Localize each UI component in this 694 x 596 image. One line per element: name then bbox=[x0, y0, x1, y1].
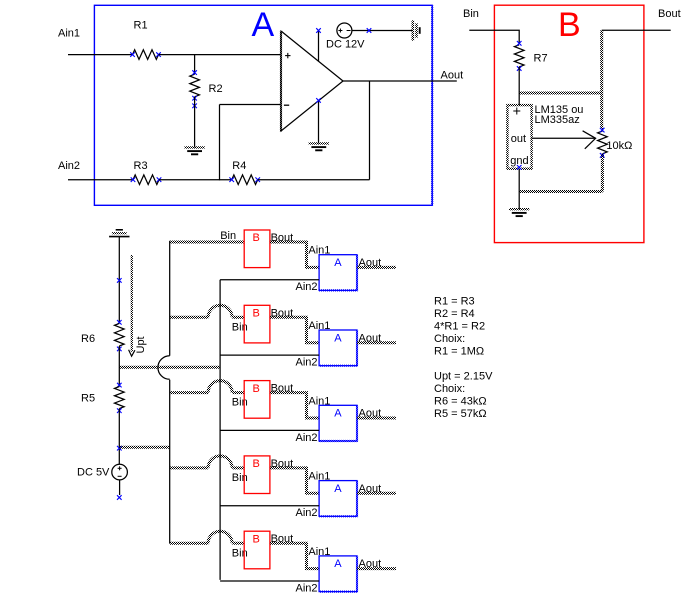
svg-text:Ain2: Ain2 bbox=[58, 160, 80, 172]
svg-text:R3: R3 bbox=[134, 160, 148, 172]
block A instance row4 bbox=[319, 481, 357, 517]
svg-text:Bin: Bin bbox=[232, 547, 248, 559]
block A instance row2 bbox=[319, 330, 357, 366]
Upt arrow head bbox=[129, 350, 135, 356]
pin x pot top bbox=[600, 128, 605, 133]
potentiometer P1 10k bbox=[598, 131, 608, 154]
svg-text:Choix:: Choix: bbox=[434, 383, 465, 395]
bus1 hop over divider wire bbox=[158, 356, 170, 380]
svg-text:R7: R7 bbox=[534, 53, 548, 65]
wire below DC 5V bbox=[119, 480, 121, 495]
wire R2 to ground bbox=[194, 97, 196, 148]
svg-text:out: out bbox=[511, 133, 526, 145]
resistor R4 bbox=[232, 175, 258, 185]
wire Bin row5 left (gray) bbox=[170, 542, 209, 545]
block B instance row1 bbox=[244, 230, 270, 268]
wire Ain2 row1 bbox=[220, 279, 319, 281]
wire Bin row5 hop over bus2 bbox=[208, 531, 232, 543]
wire R1 to op-amp noninverting input bbox=[159, 54, 282, 56]
resistor R7 bbox=[514, 45, 524, 67]
wire Ain1 input bbox=[68, 54, 133, 56]
sensor U2 LM135 body bbox=[507, 105, 531, 169]
wire Bout to Ain1 row3 (gray) bbox=[270, 393, 319, 418]
block A boundary box bbox=[94, 5, 432, 205]
pin x R3 left bbox=[131, 177, 136, 182]
pin x R4 right bbox=[255, 177, 260, 182]
pot wiper arrow head bbox=[583, 131, 596, 149]
resistor R2 bbox=[190, 74, 200, 97]
svg-text:A: A bbox=[334, 558, 342, 570]
wire feedback vertical bbox=[369, 81, 371, 180]
dc source V2 5V circle bbox=[112, 464, 128, 480]
wire R4 to feedback corner bbox=[258, 179, 370, 181]
svg-text:B: B bbox=[253, 533, 260, 545]
pin x R1 left bbox=[130, 52, 135, 57]
resistor R5 bbox=[115, 387, 125, 409]
svg-text:R1 = 1MΩ: R1 = 1MΩ bbox=[434, 346, 484, 358]
svg-text:Ain2: Ain2 bbox=[296, 582, 318, 594]
ground top of divider bbox=[109, 230, 129, 237]
dc source V1 minus bbox=[347, 30, 351, 32]
svg-text:Ain2: Ain2 bbox=[296, 357, 318, 369]
pin x DC5V plus bbox=[117, 446, 122, 451]
resistor R3 bbox=[133, 175, 159, 185]
resistor R6 bbox=[115, 323, 125, 346]
pin x dc source right bbox=[367, 28, 372, 33]
wire Bout output bbox=[602, 29, 671, 31]
op-amp ground pin wire bbox=[318, 101, 320, 144]
block B boundary box bbox=[494, 5, 644, 242]
pin x R6 bottom bbox=[117, 347, 122, 352]
pin x sensor gnd bbox=[517, 165, 522, 170]
svg-text:R6: R6 bbox=[81, 333, 95, 345]
wire R3 to R4 bbox=[159, 179, 232, 181]
wire DC5V to bus1 (gray) bbox=[119, 446, 169, 449]
svg-text:A: A bbox=[334, 332, 342, 344]
svg-text:R5: R5 bbox=[81, 393, 95, 405]
op-amp minus marker bbox=[284, 104, 289, 106]
op-amp plus marker bbox=[285, 53, 290, 58]
svg-text:Ain2: Ain2 bbox=[296, 507, 318, 519]
wire Ain2 row2 bbox=[220, 354, 319, 356]
pin x R7 top bbox=[517, 41, 522, 46]
pin x R5 bottom bbox=[117, 408, 122, 413]
wire Bin row2 hop over bus2 bbox=[208, 305, 232, 317]
op-amp positive supply pin wire bbox=[318, 31, 320, 62]
bus2 vertical (Upt) bbox=[219, 280, 221, 580]
wire Aout row1 (gray) bbox=[357, 266, 396, 269]
wire pot bottom (gray) bbox=[601, 154, 604, 192]
wire Bin row2 right (gray) bbox=[232, 316, 244, 319]
svg-text:R5 = 57kΩ: R5 = 57kΩ bbox=[434, 408, 487, 420]
wire Aout row5 (gray) bbox=[357, 567, 396, 570]
svg-text:4*R1 = R2: 4*R1 = R2 bbox=[434, 321, 485, 333]
Upt arrow line (gray) bbox=[131, 255, 133, 352]
svg-text:Bin: Bin bbox=[463, 8, 479, 20]
pin x R4 left bbox=[229, 177, 234, 182]
svg-text:A: A bbox=[334, 257, 342, 269]
svg-text:R1 = R3: R1 = R3 bbox=[434, 296, 475, 308]
svg-text:Upt = 2.15V: Upt = 2.15V bbox=[434, 371, 493, 383]
dc source V2 plus bbox=[118, 466, 122, 470]
dc source V2 minus bbox=[118, 475, 122, 477]
op-amp U1 triangle bbox=[281, 31, 343, 131]
svg-text:Aout: Aout bbox=[441, 69, 464, 81]
wire R6 to R5 bbox=[118, 346, 120, 387]
svg-text:Ain2: Ain2 bbox=[296, 432, 318, 444]
wire Bout riser (gray) bbox=[600, 30, 603, 129]
wire dc source to ground bbox=[352, 30, 413, 32]
pin x R3 right bbox=[157, 177, 162, 182]
block A instance row1 bbox=[319, 255, 357, 291]
bus1 vertical (Bin supply) bbox=[169, 241, 171, 356]
wire Aout row2 (gray) bbox=[357, 341, 396, 344]
wire Ain2 row3 bbox=[220, 429, 319, 431]
wire Bin row4 hop over bus2 bbox=[208, 456, 232, 468]
pin x R6 top bbox=[117, 320, 122, 325]
pin x R1 right bbox=[156, 52, 161, 57]
pin x R5 top bbox=[117, 383, 122, 388]
wire Bout to Ain1 row2 (gray) bbox=[270, 317, 319, 342]
wire sensor out to pot wiper bbox=[532, 137, 596, 139]
wire Ain2 row4 bbox=[220, 505, 319, 507]
wire Bin row3 hop over bus2 bbox=[208, 381, 232, 393]
block B instance row5 bbox=[244, 531, 270, 569]
pin x ground lead bbox=[117, 278, 122, 283]
wire Aout row4 (gray) bbox=[357, 492, 396, 495]
svg-text:Upt: Upt bbox=[135, 336, 147, 353]
wire Bin row2 left (gray) bbox=[170, 316, 209, 319]
wire to op-amp inverting input bbox=[220, 104, 282, 106]
svg-text:R2: R2 bbox=[209, 83, 223, 95]
svg-text:DC 12V: DC 12V bbox=[326, 39, 365, 51]
pin x R7 bottom bbox=[517, 66, 522, 71]
svg-text:A: A bbox=[334, 483, 342, 495]
svg-text:DC 5V: DC 5V bbox=[77, 467, 110, 479]
svg-text:Ain1: Ain1 bbox=[58, 28, 80, 40]
wire Bin row1 (gray) bbox=[170, 241, 245, 244]
svg-text:Ain2: Ain2 bbox=[296, 281, 318, 293]
wire R7 to sensor bbox=[518, 67, 520, 105]
svg-text:R1: R1 bbox=[134, 20, 148, 32]
pin x R2 ground lead bbox=[192, 104, 197, 109]
wire divider tap to bus2 (gray) bbox=[119, 366, 220, 369]
block B instance row3 bbox=[244, 381, 270, 419]
svg-text:R4: R4 bbox=[232, 160, 246, 172]
wire node to pot top (gray) bbox=[519, 92, 602, 95]
pin x op-amp ground pin bbox=[316, 98, 321, 103]
svg-text:gnd: gnd bbox=[510, 155, 528, 167]
wire Aout row3 (gray) bbox=[357, 417, 396, 420]
pin x R2 bottom bbox=[192, 96, 197, 101]
ground below R2 bbox=[184, 147, 204, 154]
design equations text block bbox=[434, 296, 493, 421]
wire Ain2 row5 bbox=[220, 580, 319, 582]
svg-text:Choix:: Choix: bbox=[434, 333, 465, 345]
ground below op-amp bbox=[309, 143, 329, 150]
svg-text:R2 = R4: R2 = R4 bbox=[434, 308, 475, 320]
wire R5 to DC 5V source bbox=[118, 409, 120, 465]
wire Bin row3 right (gray) bbox=[232, 391, 244, 394]
pin x pot bottom bbox=[600, 153, 605, 158]
svg-text:B: B bbox=[253, 232, 260, 244]
wire Bin row5 right (gray) bbox=[232, 542, 244, 545]
wire pot bottom to gnd (gray) bbox=[519, 190, 602, 193]
wire inverting feedback riser bbox=[219, 105, 221, 181]
sensor plus pin label bbox=[513, 108, 520, 115]
svg-text:A: A bbox=[334, 408, 342, 420]
block B instance row4 bbox=[244, 456, 270, 494]
svg-text:A: A bbox=[252, 6, 275, 44]
svg-text:Bin: Bin bbox=[232, 472, 248, 484]
svg-text:Bin: Bin bbox=[220, 230, 236, 242]
pin x DC5V minus bbox=[117, 495, 122, 500]
wire sensor gnd to ground bbox=[518, 169, 520, 210]
node R2 tap wire bbox=[194, 55, 196, 75]
wire Bin row3 left (gray) bbox=[170, 391, 209, 394]
svg-text:Bout: Bout bbox=[658, 8, 681, 20]
wire Bout to Ain1 row1 (gray) bbox=[270, 242, 319, 267]
wire Bin row4 left (gray) bbox=[170, 466, 209, 469]
svg-text:B: B bbox=[253, 383, 260, 395]
svg-text:10kΩ: 10kΩ bbox=[606, 140, 632, 152]
svg-text:B: B bbox=[253, 458, 260, 470]
block A instance row3 bbox=[319, 405, 357, 441]
wire Ain2 input bbox=[68, 179, 133, 181]
svg-text:B: B bbox=[558, 6, 581, 44]
ground below sensor bbox=[509, 209, 529, 216]
pin x R2 top bbox=[192, 70, 197, 75]
resistor R1 bbox=[133, 50, 159, 60]
block B instance row2 bbox=[244, 305, 270, 343]
wire Bout to Ain1 row5 (gray) bbox=[270, 543, 319, 568]
svg-text:Bin: Bin bbox=[232, 397, 248, 409]
wire Bin row4 right (gray) bbox=[232, 466, 244, 469]
wire ground to R6 bbox=[118, 237, 120, 324]
dc source V1 12V circle bbox=[337, 23, 352, 38]
svg-text:B: B bbox=[253, 308, 260, 320]
wire Bin input bbox=[469, 30, 519, 43]
block A instance row5 bbox=[319, 556, 357, 592]
svg-text:LM335az: LM335az bbox=[535, 114, 580, 126]
wire op-amp output Aout bbox=[343, 80, 457, 82]
pin x op-amp supply bbox=[316, 28, 321, 33]
svg-text:R6 = 43kΩ: R6 = 43kΩ bbox=[434, 396, 487, 408]
svg-text:Bin: Bin bbox=[232, 321, 248, 333]
wire Bout to Ain1 row4 (gray) bbox=[270, 468, 319, 493]
dc source V1 plus bbox=[338, 29, 342, 33]
ground right of DC 12V bbox=[413, 20, 420, 40]
